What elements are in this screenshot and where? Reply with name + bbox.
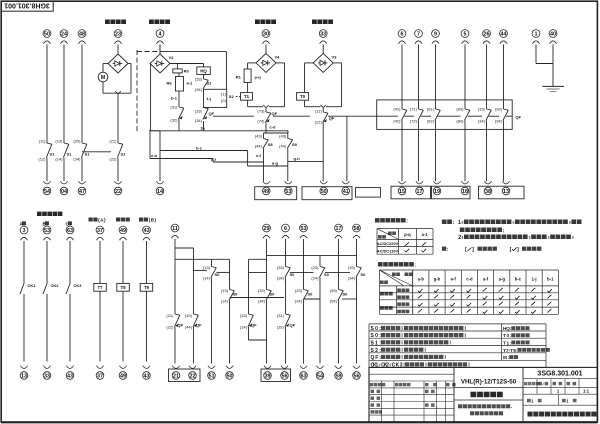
svg-text:(71): (71) xyxy=(410,107,418,112)
svg-text:QF: QF xyxy=(272,111,278,116)
notes text line2 xyxy=(460,228,505,235)
wire xyxy=(211,278,213,364)
wire closing block top xyxy=(160,45,226,90)
terminal block box xyxy=(261,369,291,382)
breaker aux contact QF pins (71)/(72) xyxy=(410,107,423,124)
fuse indication switch CK2 xyxy=(43,283,59,294)
legend row xyxy=(371,333,530,339)
svg-text:5: 5 xyxy=(464,31,467,37)
wire xyxy=(46,158,48,182)
svg-text:S2:: S2: xyxy=(371,348,382,354)
svg-text:(62): (62) xyxy=(427,119,435,124)
terminal 43 xyxy=(66,366,74,380)
dashed polarity frame xyxy=(137,50,158,133)
wire connector xyxy=(290,272,357,299)
wire jumper b-1 xyxy=(171,91,179,107)
wire rail long xyxy=(267,254,357,256)
wire xyxy=(46,294,48,362)
svg-text:(74): (74) xyxy=(257,119,265,124)
svg-text:(13): (13) xyxy=(55,138,63,143)
wire xyxy=(435,121,437,182)
svg-text:QF:: QF: xyxy=(371,355,382,361)
wire xyxy=(117,45,119,55)
svg-text:6: 6 xyxy=(401,31,404,37)
svg-text:CK1: CK1 xyxy=(28,283,37,288)
svg-text:V2: V2 xyxy=(169,55,175,60)
terminal 56 xyxy=(281,366,289,380)
svg-text:(72): (72) xyxy=(410,119,418,124)
terminal 21 xyxy=(172,366,180,380)
svg-text:b-c: b-c xyxy=(196,145,203,150)
wire xyxy=(265,108,267,112)
terminal 49 xyxy=(263,181,271,195)
svg-text:g-h: g-h xyxy=(434,277,441,282)
svg-text:24: 24 xyxy=(61,31,67,37)
svg-text:13: 13 xyxy=(21,373,27,379)
svg-text:30: 30 xyxy=(263,31,269,37)
fuse indication switch CK3 xyxy=(66,283,82,294)
svg-text:S0: S0 xyxy=(343,292,349,297)
svg-text:(54): (54) xyxy=(330,299,338,304)
header C相 xyxy=(66,221,72,226)
overcurrent trip coil T9 xyxy=(140,283,153,291)
notes text 注 xyxy=(442,247,542,253)
terminal 54 xyxy=(316,366,324,380)
terminal 43 xyxy=(143,226,151,240)
auxiliary switch S1 pins (33)/(34) xyxy=(195,77,212,93)
wire xyxy=(117,158,119,182)
terminal 9 xyxy=(432,30,440,44)
svg-text:: 1: : 1 xyxy=(453,220,461,226)
svg-text:QF: QF xyxy=(290,323,296,328)
wire xyxy=(23,241,25,284)
terminal 22 xyxy=(189,366,197,380)
notes text line3 xyxy=(458,235,573,242)
drawing number 3SG8.301.001 xyxy=(537,371,582,378)
legend row xyxy=(371,348,550,354)
svg-text:17: 17 xyxy=(336,226,342,232)
wire xyxy=(203,88,205,90)
svg-text:(24): (24) xyxy=(311,276,319,281)
svg-text:T7-T9:: T7-T9: xyxy=(503,348,518,353)
wire xyxy=(264,149,288,182)
svg-text:1-j: 1-j xyxy=(207,96,212,101)
opening coil T0 xyxy=(297,93,309,101)
svg-text:R1: R1 xyxy=(236,74,242,79)
wire xyxy=(322,108,324,112)
terminal 43 xyxy=(143,366,151,380)
terminal 17 xyxy=(335,224,343,238)
svg-text:47: 47 xyxy=(79,189,85,195)
wire xyxy=(338,301,340,364)
wire xyxy=(146,291,148,361)
svg-text:(44): (44) xyxy=(255,144,263,149)
svg-text:b-1: b-1 xyxy=(171,95,178,100)
label 操作电源选择 xyxy=(375,218,408,224)
svg-text:48: 48 xyxy=(79,31,85,37)
svg-text:c-d: c-d xyxy=(270,125,277,130)
terminal 50 xyxy=(43,30,51,44)
wire xyxy=(265,45,267,54)
terminal 47 xyxy=(78,181,86,195)
svg-text:2: 2 xyxy=(458,235,461,241)
svg-text:HQ:: HQ: xyxy=(503,326,512,331)
wire xyxy=(356,278,358,364)
svg-text:38: 38 xyxy=(485,189,491,195)
svg-text:56: 56 xyxy=(282,373,288,379)
wire bus a-g xyxy=(248,151,288,167)
notes text 说明 xyxy=(442,220,582,227)
svg-text:S0: S0 xyxy=(233,292,239,297)
wire xyxy=(81,158,83,182)
breaker aux contact QF pins (41)/(42) xyxy=(393,107,406,124)
svg-text:15: 15 xyxy=(399,189,405,195)
auxiliary switch S0 pins (13)/(14) xyxy=(203,265,220,281)
breaker contact QF pins (73)/(74) xyxy=(257,108,277,123)
svg-text:b-c: b-c xyxy=(515,277,522,282)
rectifier V1 xyxy=(108,54,128,73)
wire xyxy=(23,294,25,362)
svg-text:(21): (21) xyxy=(109,138,117,143)
product name line2 xyxy=(470,411,503,415)
option jumper table xyxy=(380,270,559,314)
svg-text:T0:: T0: xyxy=(503,333,512,338)
terminal block box xyxy=(479,186,525,199)
wire column 51 xyxy=(194,259,212,270)
terminal 48 xyxy=(78,30,86,44)
terminal block box xyxy=(432,186,471,199)
svg-text:50: 50 xyxy=(321,189,327,195)
svg-text:(34): (34) xyxy=(195,118,203,123)
svg-text:(31): (31) xyxy=(277,313,285,318)
svg-text:R0: R0 xyxy=(184,68,190,73)
terminal 3 xyxy=(20,226,28,240)
terminal 53 xyxy=(300,224,308,238)
terminal 19 xyxy=(433,181,441,195)
svg-text:21: 21 xyxy=(173,373,179,379)
svg-text:(13): (13) xyxy=(221,288,229,293)
svg-text:;: ; xyxy=(503,228,505,234)
wire xyxy=(285,278,287,315)
resistor R1 jumper p-q xyxy=(236,69,262,83)
terminal 53 xyxy=(285,181,293,195)
wire bus b-c xyxy=(160,145,248,150)
svg-text:(42): (42) xyxy=(393,119,401,124)
svg-text:54: 54 xyxy=(44,189,50,195)
svg-text:(14): (14) xyxy=(203,276,211,281)
svg-text:(33): (33) xyxy=(478,107,486,112)
terminal 37 xyxy=(96,226,104,240)
svg-text:39: 39 xyxy=(265,373,271,379)
wire xyxy=(486,45,488,110)
svg-text:QF: QF xyxy=(516,115,522,120)
terminal 56 xyxy=(353,366,361,380)
auxiliary switch S0 pins (33)/(34) xyxy=(348,265,366,281)
svg-text:37: 37 xyxy=(97,373,103,379)
terminal 49 xyxy=(119,226,127,240)
terminal 11 xyxy=(171,224,179,238)
wire bus g-h xyxy=(288,156,323,161)
wire xyxy=(122,241,124,283)
svg-text:T0: T0 xyxy=(300,94,306,99)
svg-text:54: 54 xyxy=(317,373,323,379)
svg-text:51: 51 xyxy=(209,373,215,379)
svg-text:(33): (33) xyxy=(277,265,285,270)
svg-text:(31): (31) xyxy=(170,105,178,110)
breaker contact QF pins (11)/(12) xyxy=(315,108,335,124)
wire xyxy=(81,45,83,144)
terminal 49 xyxy=(119,366,127,380)
svg-text:50: 50 xyxy=(44,31,50,37)
wire locking right branch xyxy=(263,63,284,108)
svg-text:(32): (32) xyxy=(277,325,285,330)
wire jumper c-d xyxy=(266,123,276,134)
svg-text:22: 22 xyxy=(115,189,121,195)
svg-text:QF: QF xyxy=(209,111,215,116)
svg-text:QF: QF xyxy=(196,323,202,328)
legend row CK xyxy=(371,362,470,368)
svg-text:18: 18 xyxy=(462,189,468,195)
svg-text:(14): (14) xyxy=(221,299,229,304)
terminal 58 xyxy=(353,224,361,238)
svg-text:S0: S0 xyxy=(270,292,276,297)
svg-text:S1:: S1: xyxy=(371,340,382,346)
breaker aux contact QF pins (61)/(62) xyxy=(427,107,440,124)
breaker contact QF pins (31)/(32) xyxy=(277,313,296,330)
svg-text:(34): (34) xyxy=(73,156,81,161)
header B相 xyxy=(43,221,49,226)
svg-text:a-f: a-f xyxy=(483,277,489,282)
svg-text:VHL(R)-12/T12S-50: VHL(R)-12/T12S-50 xyxy=(461,378,517,385)
drawing title 内部原理图 xyxy=(471,392,503,398)
svg-text:M:: M: xyxy=(503,355,510,360)
svg-text:(83): (83) xyxy=(456,107,464,112)
svg-text:g-h: g-h xyxy=(294,156,301,161)
wire xyxy=(46,241,48,284)
svg-text:1-j: 1-j xyxy=(532,277,537,282)
svg-text:S8: S8 xyxy=(268,142,274,147)
wire column 54 xyxy=(319,255,321,266)
svg-text:3SG8.301.001: 3SG8.301.001 xyxy=(537,371,582,378)
terminal 6 xyxy=(282,224,290,238)
svg-text:33: 33 xyxy=(44,373,50,379)
terminal block box xyxy=(169,369,201,382)
svg-text:63: 63 xyxy=(301,373,307,379)
wire xyxy=(418,45,420,110)
node 1b xyxy=(200,126,205,131)
terminal 37 xyxy=(96,366,104,380)
svg-text:(22): (22) xyxy=(109,156,117,161)
svg-text:40: 40 xyxy=(550,31,556,37)
wire xyxy=(63,45,65,144)
rectifier V3 xyxy=(313,53,337,72)
svg-text:(12): (12) xyxy=(315,120,323,125)
svg-text:1b: 1b xyxy=(200,126,205,131)
svg-text:a-1: a-1 xyxy=(421,232,428,237)
svg-text:S0:: S0: xyxy=(371,333,382,339)
header 过流(A) xyxy=(89,218,106,224)
svg-text:63: 63 xyxy=(67,228,73,234)
wire xyxy=(229,301,231,364)
wire xyxy=(247,83,249,93)
svg-text:V4: V4 xyxy=(275,55,281,60)
wire xyxy=(69,241,71,284)
wire xyxy=(322,123,324,182)
svg-text:(23): (23) xyxy=(295,288,303,293)
auxiliary switch S9 pins (43)/(44) xyxy=(279,134,297,149)
terminal 5 xyxy=(461,30,469,44)
terminal 53 xyxy=(43,226,51,240)
terminal 18 xyxy=(461,181,469,195)
svg-text:3: 3 xyxy=(23,228,26,234)
svg-text:(33): (33) xyxy=(258,288,266,293)
svg-text:S2: S2 xyxy=(229,94,235,99)
company name 上海祝捷电气科技有限公司 xyxy=(528,412,597,417)
rectifier V4 xyxy=(256,53,280,72)
svg-text:(14): (14) xyxy=(240,325,248,330)
title label box top-left (rotated drawing number) xyxy=(1,1,53,11)
svg-text:p-q: p-q xyxy=(404,232,411,237)
svg-text:43: 43 xyxy=(144,373,150,379)
auxiliary switch S0 pins (13)/(14) xyxy=(221,288,238,304)
svg-text:(93): (93) xyxy=(495,107,503,112)
label 可选件接线设置 xyxy=(378,262,416,268)
svg-text:(84): (84) xyxy=(456,119,464,124)
svg-text:23: 23 xyxy=(115,31,121,37)
svg-text:AC/DC220V: AC/DC220V xyxy=(377,241,399,246)
svg-text:6: 6 xyxy=(284,226,287,232)
svg-text:S1: S1 xyxy=(207,80,213,85)
svg-text:53: 53 xyxy=(44,228,50,234)
svg-text:b-1: b-1 xyxy=(547,277,554,282)
terminal block box xyxy=(302,187,352,200)
wire xyxy=(266,301,268,364)
breaker contact QF pins (43)/(44) xyxy=(185,313,202,330)
svg-text:4: 4 xyxy=(159,31,162,37)
ground xyxy=(542,86,564,91)
svg-text:43: 43 xyxy=(144,228,150,234)
svg-text:T7: T7 xyxy=(97,285,103,290)
auxiliary switch S2 xyxy=(229,94,241,99)
motor M xyxy=(98,72,108,82)
svg-text:AC/DC110V: AC/DC110V xyxy=(377,248,399,253)
fuse indication switch CK1 xyxy=(20,283,36,294)
svg-text:S0:: S0: xyxy=(371,326,382,332)
wire xyxy=(285,239,287,267)
svg-text:(44): (44) xyxy=(185,325,193,330)
auxiliary contact bank QF box xyxy=(377,100,513,129)
locking coil T1 xyxy=(241,93,253,101)
jumper selection box 1-j / 1-0 xyxy=(204,89,227,107)
header 分闸回路 xyxy=(312,20,333,25)
wire rail xyxy=(175,258,230,260)
drawing type designation xyxy=(454,378,523,400)
terminal 54 xyxy=(43,181,51,195)
breaker contact QF pins (33)/(34) xyxy=(195,107,215,122)
svg-text:(29): (29) xyxy=(73,138,81,143)
terminal 44 xyxy=(500,30,508,44)
wire xyxy=(464,45,466,110)
label QF of contact bank xyxy=(516,115,522,120)
breaker contact QF pins (21)/(22) xyxy=(166,313,183,330)
svg-text:49: 49 xyxy=(120,373,126,379)
wire xyxy=(63,158,65,182)
wire xyxy=(266,239,268,290)
terminal 63 xyxy=(66,226,74,240)
svg-text:(34): (34) xyxy=(258,299,266,304)
svg-text:QF: QF xyxy=(178,323,184,328)
terminal 38 xyxy=(484,181,492,195)
terminal 13 xyxy=(20,366,28,380)
title block right grid xyxy=(523,379,597,406)
wire xyxy=(322,45,324,54)
svg-text:(22): (22) xyxy=(166,325,174,330)
legend box xyxy=(369,324,546,368)
svg-text:(34): (34) xyxy=(277,276,285,281)
svg-text:e-f: e-f xyxy=(211,157,217,162)
svg-text:53: 53 xyxy=(285,189,291,195)
wire to terminal 41 xyxy=(346,116,348,181)
svg-text:(33): (33) xyxy=(195,77,203,82)
wire xyxy=(305,100,321,107)
wire xyxy=(285,327,287,364)
svg-text:22: 22 xyxy=(190,373,196,379)
svg-text:(34): (34) xyxy=(348,276,356,281)
wire split to S8/S9 xyxy=(264,133,288,139)
svg-text:04: 04 xyxy=(61,189,67,195)
svg-text:a-g: a-g xyxy=(272,161,279,166)
svg-text:(33): (33) xyxy=(195,109,203,114)
terminal 30 xyxy=(262,30,270,44)
wire xyxy=(486,121,488,182)
header A相 xyxy=(20,221,26,226)
svg-text:14: 14 xyxy=(157,189,163,195)
auxiliary switch S0 pins (23)/(24) xyxy=(311,265,329,281)
svg-text:49: 49 xyxy=(263,189,269,195)
auxiliary switch S0 pins (33)/(34) xyxy=(277,265,295,281)
wire locking left branch xyxy=(248,63,256,69)
wire to ground xyxy=(536,45,553,87)
svg-text:(61): (61) xyxy=(427,107,435,112)
svg-text:S9: S9 xyxy=(292,142,298,147)
svg-text:(43): (43) xyxy=(185,313,193,318)
svg-text:53: 53 xyxy=(301,226,307,232)
svg-text:(A): (A) xyxy=(98,218,106,224)
wire xyxy=(248,100,264,107)
terminal 6 xyxy=(398,30,406,44)
svg-text:e-b: e-b xyxy=(151,153,158,158)
auxiliary switch S1 pins (21)/(22) xyxy=(109,138,126,161)
terminal 39 xyxy=(264,366,272,380)
overcurrent trip coil T7 xyxy=(94,283,107,291)
wire xyxy=(146,241,148,283)
svg-text:T1:: T1: xyxy=(503,340,512,345)
svg-text:(24): (24) xyxy=(295,299,303,304)
terminal block box xyxy=(255,187,297,200)
wire xyxy=(319,278,321,364)
svg-text:a-b: a-b xyxy=(418,277,425,282)
wire xyxy=(338,239,340,290)
wire xyxy=(435,45,437,110)
svg-text:(34): (34) xyxy=(478,119,486,124)
wire xyxy=(46,45,48,144)
svg-text:R6: R6 xyxy=(167,80,173,85)
svg-text:(13): (13) xyxy=(203,265,211,270)
wire box loop xyxy=(249,259,267,340)
terminal 14 bottom of closing column xyxy=(156,181,164,195)
breaker aux contact QF pins (83)/(84) xyxy=(456,107,469,124)
terminal 33 xyxy=(319,30,327,44)
